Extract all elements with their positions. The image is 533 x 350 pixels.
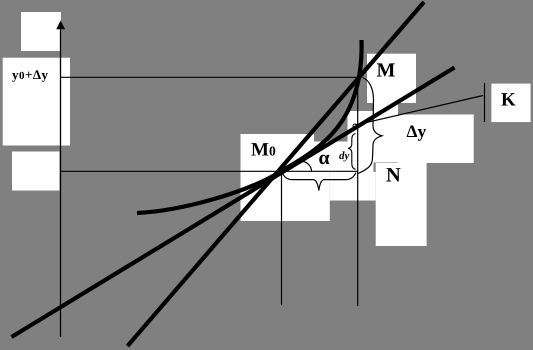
white label box N [376,163,427,246]
y axis arrowhead [56,21,65,30]
horizontal underbrace below M0-N [282,173,356,191]
curve y=f(x) [137,40,362,213]
white box below M0 line [241,172,330,221]
thin line to K [356,96,484,126]
svg-text:M: M [377,60,396,82]
horizontal line y0+dy level [60,76,359,78]
svg-text:M0: M0 [251,140,276,161]
svg-text:N: N [386,165,401,187]
white box braces column [348,111,399,163]
vertical line below M0 [281,172,283,305]
white label box M [367,54,416,103]
svg-text:dy: dy [339,150,350,162]
svg-text:y0+Δy: y0+Δy [12,67,49,82]
white label box Delta-y [398,115,474,164]
svg-text:Δy: Δy [407,121,427,141]
angle alpha arc [302,162,312,172]
white box below alpha box [330,172,376,201]
white connector under M box [373,103,398,115]
white label box K [491,84,530,123]
vertical tick at K [484,83,486,122]
white label box alpha/dy [314,142,374,173]
horizontal line y0 level (M0-N) [60,170,358,172]
white label box (empty, top-left) [21,12,61,51]
curl at start of K line [353,124,357,128]
white box left part below [348,163,374,176]
secant line [128,2,425,346]
small brace dy [348,134,356,170]
tangent line [12,68,455,338]
big brace Delta-y [358,78,382,174]
white label box M0 [241,134,315,172]
svg-text:α: α [319,147,330,169]
y axis [60,22,62,337]
white label box (empty, below y0+dy) [12,152,60,191]
svg-text:K: K [501,90,516,111]
white label box y0+dy [3,58,70,146]
vertical line from M down [357,78,359,306]
